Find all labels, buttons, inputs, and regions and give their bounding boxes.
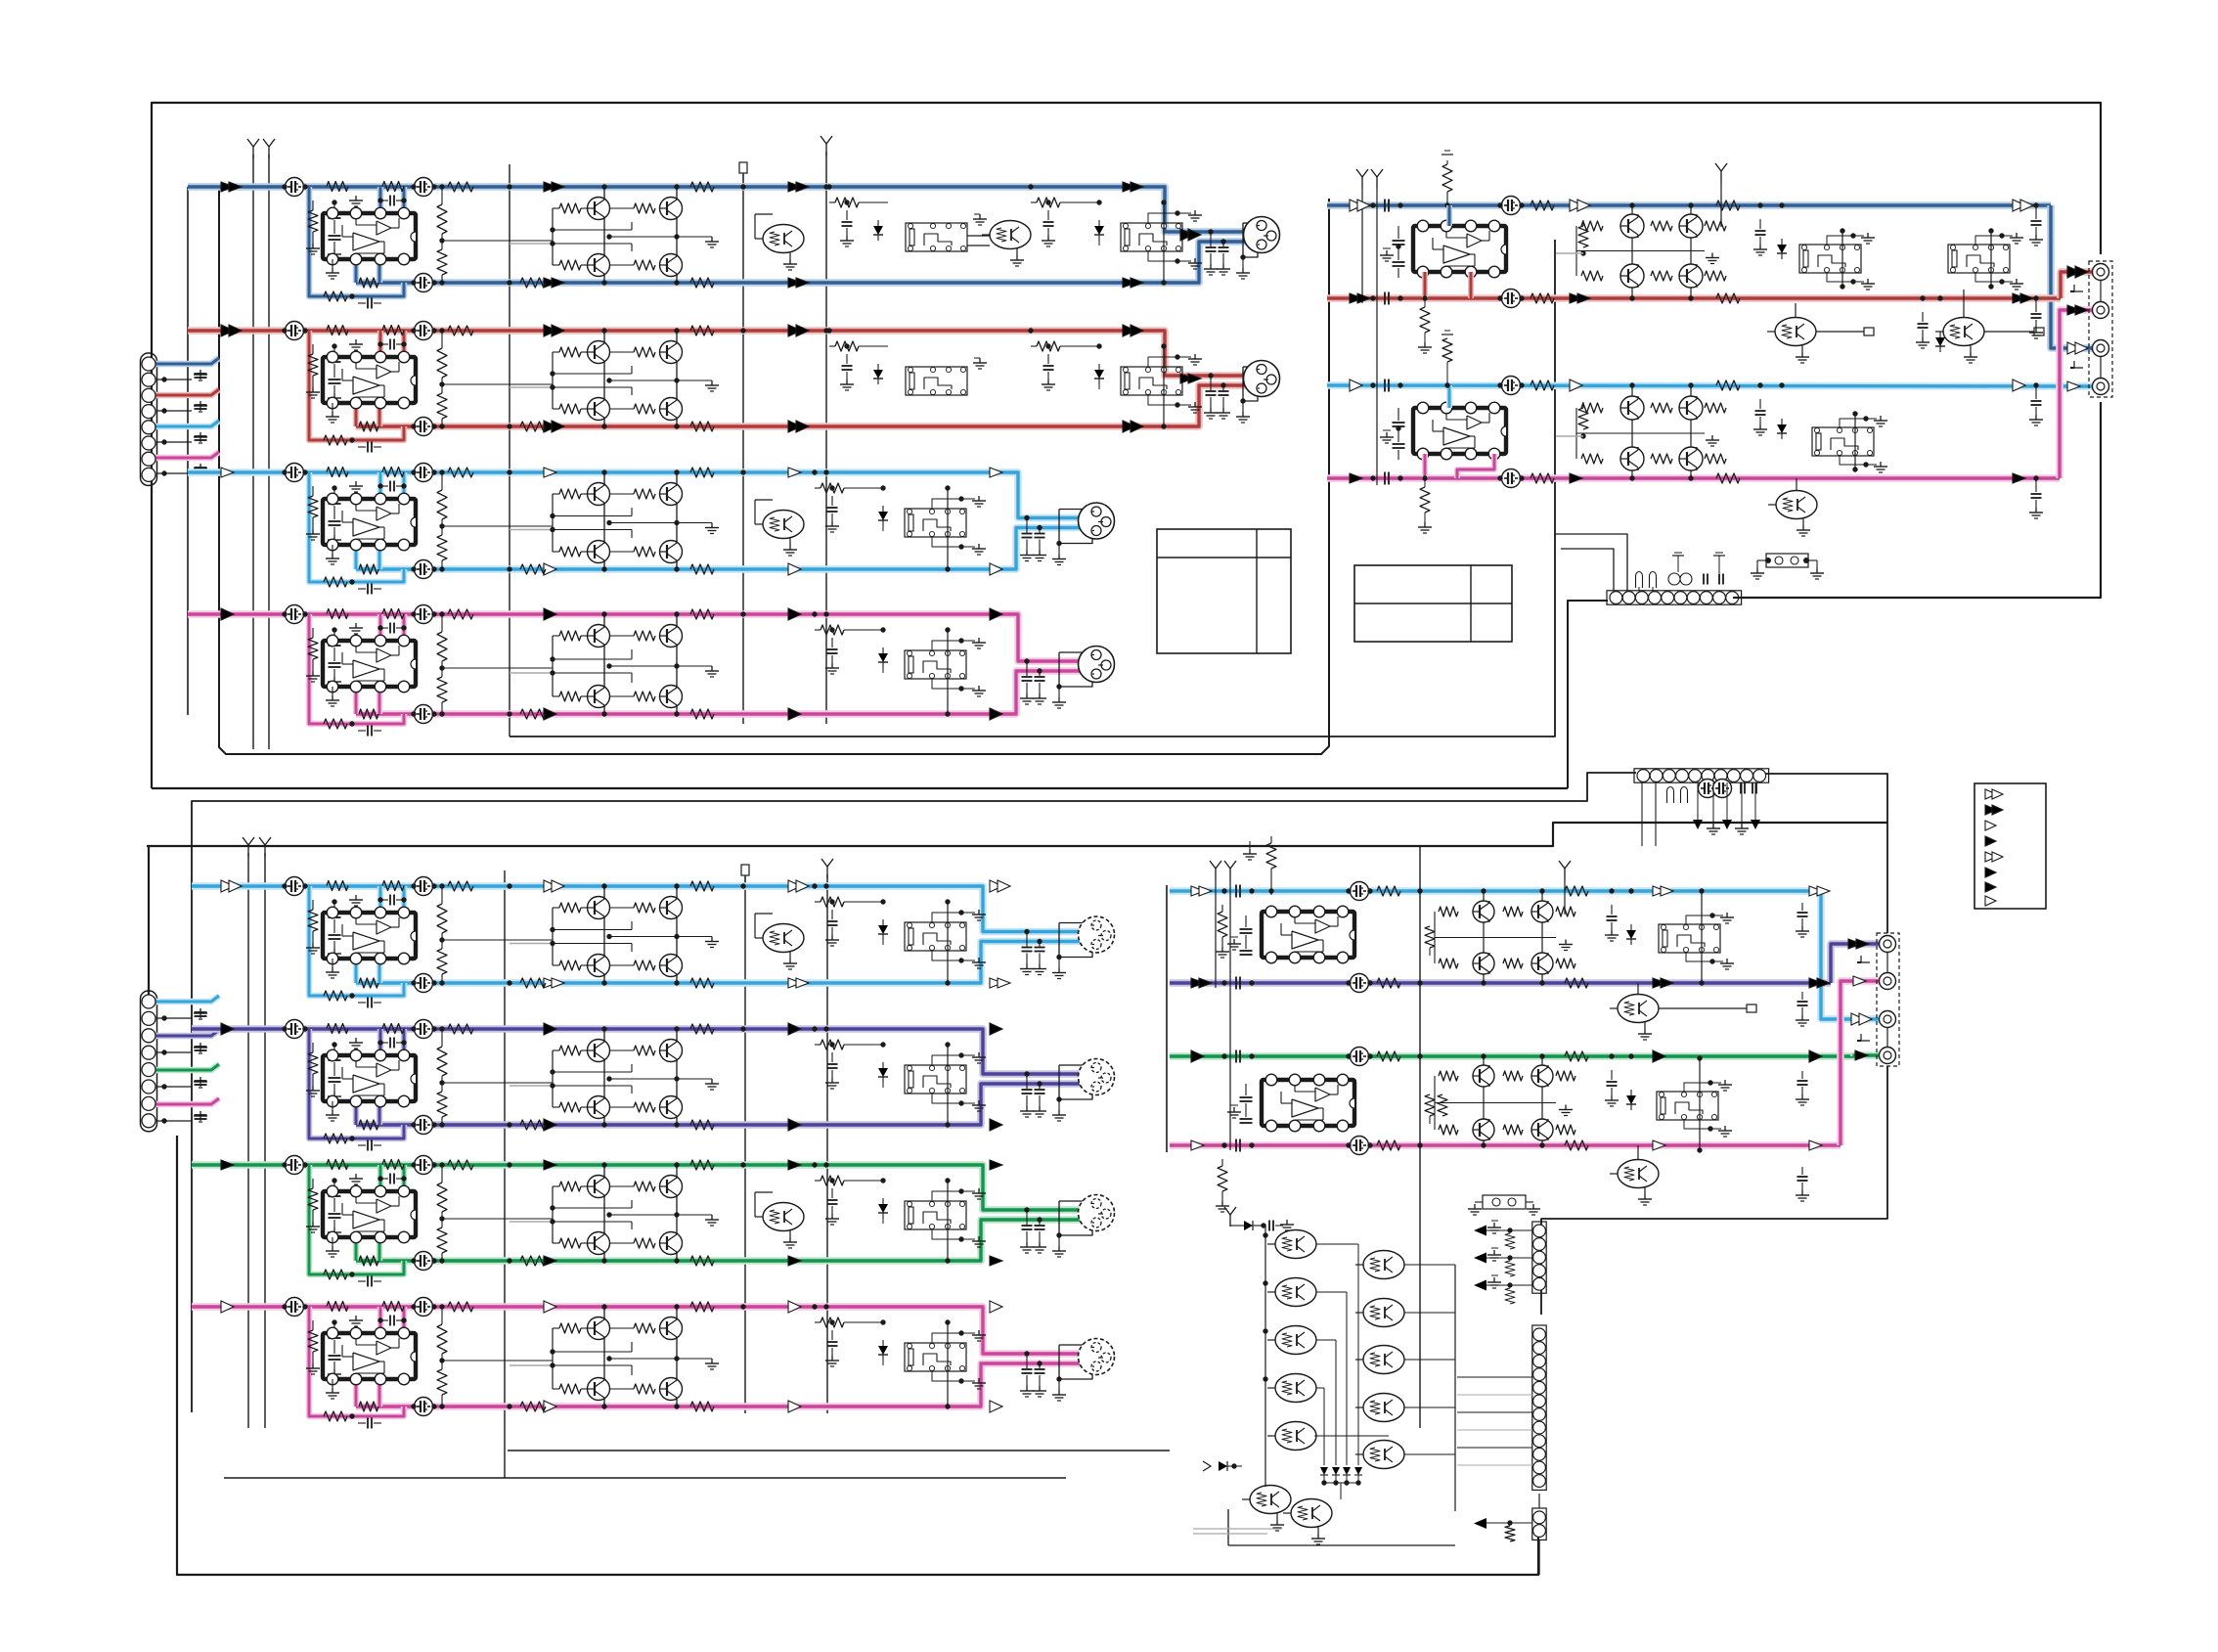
resistor D r-top [1266, 836, 1276, 895]
wire C1 signal+ [192, 886, 1099, 932]
diode A1 d1b [873, 220, 883, 241]
resistor A1 r6b [826, 184, 888, 207]
resistor A1 r5 [437, 184, 553, 285]
resistor A1 r1 [448, 182, 473, 192]
resistor A2 r2b [359, 422, 378, 431]
op-amp B-U2 [1413, 402, 1506, 460]
resistor A2 r-in [306, 344, 320, 398]
relay RY-C1 [905, 922, 966, 951]
op-amp U-A1 [323, 207, 416, 265]
resistor A1 r3 [690, 182, 714, 192]
capacitor C4 c5 [825, 1319, 839, 1366]
ground C2 rg2 [932, 1094, 986, 1111]
diode D3 d1 [1626, 1053, 1636, 1110]
diode D grid diodes [1320, 1467, 1362, 1499]
wire B2 signal [1327, 272, 2093, 298]
plug P-A [739, 162, 747, 180]
ground A3 u-gnd2 [349, 481, 363, 492]
ground RY-D2 g1 [1684, 1080, 1732, 1092]
node C3 junctions [507, 1162, 828, 1263]
capacitor A2 c2 [411, 322, 436, 340]
node C3 arrows [221, 1160, 1002, 1266]
wire C1 feedback [309, 886, 404, 996]
table block 1 [1157, 529, 1291, 653]
capacitor C1 c5 [825, 899, 839, 946]
node A1 arrows [221, 182, 1143, 288]
node D4 arrows [1191, 1140, 1822, 1150]
resistor C3 r6 [812, 1162, 885, 1185]
connector XLR-C4 [1079, 1339, 1115, 1375]
resistor C3 r-in [306, 1179, 320, 1232]
wire D grid links [1314, 1265, 1455, 1511]
diode A2 d1 [1094, 343, 1104, 389]
resistor A4 r-fb3 [382, 609, 404, 619]
capacitor A2 c-fb [358, 442, 381, 453]
ground A2 rg1 [1148, 354, 1202, 367]
resistor B3 r1 [1530, 380, 1554, 390]
wire A1 signal- [356, 242, 1260, 283]
op-amp U-A4 [323, 635, 416, 692]
capacitor A4 c-fb [358, 726, 381, 737]
wire C3 shield [1052, 1201, 1093, 1257]
resistor B2 r2 [1716, 293, 1740, 303]
diode B3 d1 [1777, 382, 1787, 439]
capacitor D2 c-in [1221, 977, 1254, 990]
resistor A2 r1 [448, 326, 473, 335]
connector XLR-A3 [1079, 503, 1115, 539]
resistor A3 r-fb [324, 577, 355, 587]
resistor C2 r5 [437, 1026, 553, 1127]
diode A3 d1 [878, 485, 888, 531]
wire B-U1 stubs [1425, 205, 1471, 298]
capacitor A1 c1 [282, 178, 307, 197]
ground C1 u-gnd2 [349, 895, 363, 906]
capacitor B1 c-in [1370, 200, 1402, 212]
wire rail C3 [504, 871, 506, 1478]
ground RY-B1 g2 [1827, 273, 1875, 290]
wire rail C5 [826, 874, 828, 1413]
wire D return [1541, 1066, 1887, 1315]
connector D J-v3 [1532, 1508, 1546, 1540]
wire B1 signal [1327, 205, 2093, 348]
node D1 dots [1417, 888, 1422, 893]
node D strip bottom [1474, 1518, 1532, 1541]
antenna C1 [243, 837, 254, 857]
transistor quad Q-B12 [1576, 202, 1726, 300]
resistor A4 r-fb [324, 719, 355, 729]
wire rail C4 [744, 876, 746, 1413]
resistor C4 r-fb2 [327, 1302, 348, 1312]
ground RY-B3 g2 [1840, 456, 1887, 472]
resistor D jumper [1468, 1195, 1540, 1215]
capacitor C3 c-fb [358, 1276, 381, 1287]
antenna D1 [1210, 861, 1221, 988]
capacitor C3 c-comp [377, 1174, 406, 1184]
transistor quad Q-A1 [510, 184, 719, 285]
relay RY-C3 [905, 1201, 966, 1229]
resistor A2 r6b [826, 328, 888, 351]
capacitor C2 c-in [328, 1042, 341, 1102]
node A1 junctions [507, 184, 828, 285]
plug P-C [741, 865, 749, 882]
resistor A3 r3 [690, 468, 714, 477]
wire C2 signal- [356, 1084, 1094, 1125]
resistor C2 r3 [690, 1024, 714, 1034]
antenna D2 [1224, 861, 1236, 1150]
ground input A1 [156, 370, 207, 382]
capacitor A2 c5 [1042, 343, 1055, 390]
resistor D3 r2 [1565, 1051, 1588, 1061]
capacitor C4 out-caps [1020, 1351, 1046, 1397]
capacitor A3 c-fb [358, 584, 381, 595]
wire A4 signal- [356, 671, 1094, 714]
connector D J-v2 [1532, 1325, 1546, 1490]
wire D4 signal [1170, 981, 1880, 1145]
resistor A3 r-in [306, 486, 320, 540]
ground C3 u-gnd [326, 1237, 339, 1257]
capacitor A1 c-in [328, 200, 341, 260]
transistor quad Q-C1 [510, 883, 719, 985]
wire C3 signal- [356, 1220, 1094, 1261]
node D grid-entry2 [1203, 1461, 1242, 1471]
wire rail A5 [825, 152, 827, 724]
wire D rail1 [1419, 880, 1421, 1428]
resistor D4 r-in [1216, 1159, 1229, 1212]
capacitor B3 c5 [1753, 382, 1767, 435]
capacitor D u1-cl [1227, 915, 1253, 955]
wire input stub C1 [156, 996, 219, 1002]
resistor C2 r-fb [324, 1134, 355, 1143]
resistor C3 r4 [690, 1256, 714, 1266]
capacitor C3 c1 [282, 1156, 307, 1175]
wire A1 shield [1236, 223, 1259, 279]
resistor C1 r2b [359, 978, 378, 988]
resistor A4 r2 [520, 709, 546, 719]
ground A2 rg2 [1148, 395, 1202, 413]
resistor C1 r6 [812, 883, 885, 907]
resistor C4 r5 [437, 1304, 553, 1408]
capacitor C3 c2 [411, 1156, 436, 1175]
ground A1 u-gnd [326, 259, 339, 279]
resistor A2 r3 [690, 326, 714, 335]
capacitor B3 c-out [2029, 382, 2043, 425]
wire A2 signal- [356, 385, 1260, 426]
capacitor A2 c-in [328, 343, 341, 404]
capacitor A3 c1 [282, 464, 307, 482]
resistor C3 r2 [520, 1256, 546, 1266]
wire input stub C3 [156, 1064, 219, 1070]
ground C4 rg2 [932, 1371, 986, 1389]
node C1 junctions [507, 883, 828, 985]
resistor C3 r1 [448, 1160, 473, 1170]
resistor C2 r-fb3 [382, 1024, 404, 1034]
antenna A2 [263, 139, 275, 158]
capacitor B u1-cl [1380, 226, 1405, 278]
op-amp U-C2 [323, 1049, 416, 1107]
wire input stub A1 [156, 358, 219, 364]
wire C4 shield [1052, 1345, 1093, 1401]
resistor A2 r4 [690, 422, 714, 431]
capacitor A4 c2 [411, 605, 436, 624]
ground C1 rg1 [932, 910, 986, 922]
ground A2 u-gnd [326, 403, 339, 423]
wire B4 signal [1327, 310, 2093, 478]
resistor A4 r1 [448, 609, 473, 619]
resistor A1 r6 [1028, 184, 1101, 207]
relay RY-A2 [1121, 367, 1182, 395]
node A2 out-arrow [1180, 374, 1201, 383]
capacitor A4 out-caps [1020, 658, 1046, 704]
wire bottom frame left/bottom [149, 846, 1538, 1575]
wire D2 signal [1170, 944, 1880, 983]
legend box [1974, 783, 2046, 909]
capacitor B1 c-out [2029, 202, 2043, 246]
wire C1 shield [1052, 923, 1093, 979]
wire D rail top link [1419, 847, 1421, 880]
capacitor C3 out-caps [1020, 1207, 1046, 1253]
wire C1 signal- [356, 942, 1094, 984]
wire D grid bus1 [1263, 1225, 1267, 1487]
connector J-OUT-B [2070, 261, 2112, 397]
resistor D2 r1 [1377, 978, 1400, 988]
capacitor B1 c-ccap [1497, 197, 1524, 215]
capacitor B2 c5b [1916, 295, 1930, 348]
capacitor C2 c-comp [377, 1038, 406, 1049]
antenna B1 [1356, 169, 1368, 303]
resistor D u1-r [1425, 926, 1435, 956]
resistor A1 r-fb3 [382, 182, 404, 192]
resistor B1 r1 [1530, 201, 1554, 210]
capacitor C3 c-in [328, 1178, 341, 1238]
resistor A1 r-fb2 [327, 182, 348, 192]
node C1 arrows [221, 880, 1010, 988]
table block 2 [1354, 565, 1512, 642]
ground A4 u-gnd2 [349, 623, 363, 634]
node D3 arrows [1191, 1050, 1822, 1062]
node A3 arrows [221, 468, 1002, 575]
diode D1 d1 [1626, 888, 1636, 945]
capacitor A1 out-caps [1204, 229, 1230, 275]
wire rail A1 [252, 155, 254, 749]
capacitor D3 c-in [1221, 1050, 1254, 1063]
op-amp D-U1 [1262, 906, 1354, 963]
ground A3 rg2 [932, 537, 986, 555]
resistor C3 r-fb3 [382, 1160, 404, 1170]
wire H2 left link [192, 773, 1636, 1412]
capacitor D3 c-ccap [1346, 1048, 1372, 1066]
ground H1 g2 [1713, 553, 1725, 573]
antenna C2 [259, 837, 271, 857]
diode D grid-in [1230, 1220, 1294, 1231]
resistor A3 r2b [359, 564, 378, 574]
capacitor D1 c-ccap [1346, 882, 1372, 901]
transistor D opto2 [1610, 1145, 1659, 1205]
capacitor A2 c5b [840, 343, 854, 390]
relay RY-B1 [1799, 228, 1861, 289]
resistor B u2-gnd [1418, 475, 1432, 533]
capacitor A4 c3 [411, 705, 436, 724]
resistor C1 r2 [520, 978, 546, 988]
wire C2 feedback [309, 1029, 404, 1139]
wire rail C2 [264, 853, 266, 1428]
ground C3 rg2 [932, 1229, 986, 1247]
ground C1 rg2 [932, 951, 986, 968]
ground RY-B1 g1 [1827, 233, 1875, 245]
resistor A2 r-fb2 [327, 326, 348, 335]
resistor C2 r2b [359, 1120, 378, 1130]
relay RY-B3 [1812, 411, 1874, 471]
node C4 arrows [221, 1301, 1002, 1412]
ground A1 rbg [973, 214, 987, 225]
resistor C1 r-fb3 [382, 881, 404, 891]
wire A4 relay rail [945, 627, 950, 716]
wire B gray2 [1556, 435, 1583, 437]
capacitor A2 c3 [411, 418, 436, 436]
wire H1 strip link [1555, 534, 1627, 591]
node D strip arrows [1474, 1221, 1532, 1304]
capacitor A2 c-comp [377, 339, 406, 350]
capacitor C4 c3 [411, 1398, 436, 1416]
wire row bus A [187, 187, 189, 715]
capacitor B2 c-in [1370, 292, 1402, 305]
wire A4 feedback [309, 614, 404, 724]
connector J-OUT-D [1857, 933, 1899, 1066]
antenna A3 [821, 136, 832, 156]
relay RY-D2 [1657, 1055, 1718, 1152]
resistor B r-top3 [1442, 331, 1453, 388]
wire C2 signal+ [192, 1029, 1099, 1074]
transistor A1 opto [755, 214, 804, 270]
resistor C1 r3 [690, 881, 714, 891]
capacitor B3 c-in [1370, 380, 1402, 392]
resistor D1 r2 [1565, 886, 1588, 896]
capacitor C2 c-fb [358, 1140, 381, 1151]
wire A3 signal+ [188, 472, 1099, 518]
resistor B3 r2 [1716, 380, 1740, 390]
op-amp B-U1 [1413, 220, 1506, 278]
transistor quad Q-A3 [510, 469, 719, 571]
capacitor C1 c3 [411, 974, 436, 993]
node D3 dots [1417, 1053, 1422, 1058]
wire A2 relay rail [1161, 343, 1166, 428]
resistor A3 r6 [812, 469, 885, 493]
resistor C1 r-in [306, 900, 320, 954]
wire C4 signal+ [192, 1307, 1099, 1354]
capacitor D4 c-in [1221, 1139, 1254, 1152]
node B1 arrows [1350, 200, 2088, 354]
ground RY-D2 g2 [1684, 1120, 1732, 1137]
capacitor D4 c-ccap [1346, 1137, 1372, 1155]
op-amp U-C4 [323, 1327, 416, 1385]
capacitor H2 cluster [1642, 780, 1760, 847]
resistor C1 r-fb2 [327, 881, 348, 891]
capacitor C1 c-fb [358, 998, 381, 1008]
node D2 arrows [1191, 978, 1830, 988]
capacitor C4 c2 [411, 1298, 436, 1317]
resistor A2 r-fb [324, 435, 355, 445]
resistor A2 r2 [520, 422, 546, 431]
connector H2 [1634, 769, 1769, 782]
wire A4 shield [1052, 652, 1093, 708]
wire B3 signal [1327, 385, 2093, 386]
ground C3 u-gnd2 [349, 1174, 363, 1184]
relay RY-C4 [905, 1343, 966, 1371]
resistor B u1-gnd [1418, 295, 1432, 353]
wire H1 out [1733, 597, 2101, 599]
wire A3 signal- [356, 528, 1094, 570]
transistor quad Q-B34 [1576, 382, 1726, 480]
wire A2 feedback [309, 331, 404, 440]
diode C3 d1 [878, 1178, 888, 1224]
connector XLR-A2 [1244, 361, 1280, 397]
connector XLR-C2 [1079, 1059, 1115, 1095]
resistor B q2-in [1578, 402, 1588, 439]
capacitor C4 c-fb [358, 1418, 381, 1429]
resistor C4 r6 [812, 1304, 885, 1327]
transistor D opto1 [1610, 983, 1756, 1040]
diode A4 d1 [878, 627, 888, 673]
ground A3 u-gnd [326, 545, 339, 564]
node A4 junctions [507, 611, 828, 716]
wire input stub A3 [156, 421, 219, 426]
transistor C1 opto [755, 914, 804, 969]
capacitor A1 c-fb [358, 298, 381, 309]
capacitor C2 out-caps [1020, 1071, 1046, 1117]
ground RY-D1 g1 [1686, 913, 1734, 924]
wire A3 feedback [309, 472, 404, 582]
wire C2 relay rail [945, 1042, 950, 1127]
relay RY-A1b [906, 223, 967, 251]
capacitor A3 c-in [328, 485, 341, 546]
resistor C4 r4 [690, 1402, 714, 1411]
ground B g-top [1442, 151, 1453, 155]
capacitor D right-c [1796, 903, 1809, 937]
wire A4 signal+ [188, 614, 1099, 661]
wire rail A3 [509, 164, 510, 737]
ground A4 rg1 [932, 638, 986, 650]
transistor quad Q-C3 [510, 1162, 719, 1263]
capacitor B4 c-ccap [1497, 469, 1524, 488]
wire bottom frame inner [224, 1451, 1170, 1478]
ground input A3 [156, 432, 207, 445]
capacitor C3 c3 [411, 1252, 436, 1271]
ground C3 rg1 [932, 1188, 986, 1201]
relay RY-A4 [905, 650, 966, 679]
capacitor H1 cluster [1636, 572, 1724, 592]
relay RY-A3 [905, 509, 966, 537]
resistor B1 r2 [1716, 201, 1740, 210]
wire D strip link [1538, 1494, 1540, 1575]
resistor B4 r2 [1716, 473, 1740, 483]
capacitor A3 c-comp [377, 481, 406, 492]
resistor C3 r2b [359, 1256, 378, 1266]
resistor A3 r5 [437, 469, 553, 571]
transistor B opto3 [1768, 491, 1817, 537]
relay RY-D1 [1659, 888, 1720, 985]
wire C4 feedback [309, 1307, 404, 1416]
wire top frame outer [152, 103, 2101, 788]
resistor C2 r4 [690, 1120, 714, 1130]
capacitor A1 c2 [411, 178, 436, 197]
ground C2 rg1 [932, 1052, 986, 1065]
ground A4 rg2 [932, 679, 986, 696]
wire B opto links [1796, 290, 1964, 490]
wire C3 signal+ [192, 1165, 1099, 1210]
node B3 arrows [1350, 380, 2080, 391]
wire B gray1 [1556, 252, 1583, 254]
wire D grid return [1228, 1509, 1455, 1545]
resistor C1 r5 [437, 883, 553, 985]
